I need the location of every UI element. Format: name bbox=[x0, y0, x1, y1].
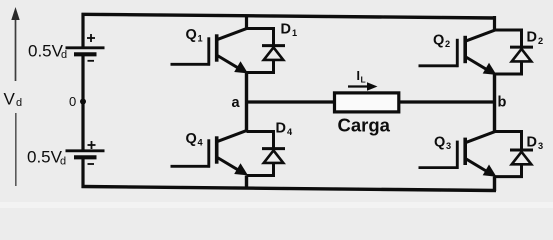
diode D1 cathode bar bbox=[262, 44, 285, 47]
diode D3 cathode bar bbox=[510, 149, 533, 152]
IGBT Q1 collector lead bbox=[217, 28, 248, 40]
svg-text:Q: Q bbox=[186, 27, 197, 43]
wire: battery column top bbox=[81, 13, 84, 48]
label Q2 bbox=[433, 33, 450, 50]
label D4 bbox=[276, 121, 294, 138]
IGBT Q1 emitter lead with arrow bbox=[217, 55, 242, 70]
svg-text:2: 2 bbox=[538, 36, 543, 46]
node 0 dot bbox=[80, 99, 86, 105]
current IL arrow bbox=[348, 85, 370, 87]
battery B2 plate + (long) bbox=[66, 149, 105, 152]
IGBT Q2 emitter lead with arrow bbox=[465, 57, 490, 72]
label Q4 bbox=[186, 131, 204, 148]
svg-text:I: I bbox=[357, 69, 360, 83]
svg-text:2: 2 bbox=[445, 39, 450, 49]
label 0.5Vd (lower source) bbox=[27, 147, 66, 167]
label Q3 bbox=[434, 135, 451, 152]
battery B2 minus sign bbox=[88, 163, 95, 165]
diode D4 branch top bbox=[247, 132, 274, 148]
svg-text:D: D bbox=[527, 135, 537, 151]
wire: leg a vertical (Q1 emitter to Q4 collector) bbox=[245, 73, 248, 132]
diode D1 branch top bbox=[247, 29, 274, 45]
battery B1 plate + (long) bbox=[66, 46, 105, 49]
diode D3 branch top bbox=[495, 132, 522, 149]
IGBT Q2 gate bar bbox=[456, 39, 459, 67]
IGBT Q3 body bar bbox=[463, 138, 467, 165]
label D2 bbox=[527, 30, 544, 47]
label IL bbox=[357, 69, 366, 84]
svg-text:b: b bbox=[498, 95, 507, 111]
diode D2 branch bottom bbox=[495, 62, 522, 75]
IGBT Q1 gate bar bbox=[207, 37, 210, 65]
svg-text:a: a bbox=[232, 95, 241, 111]
battery B1 minus sign bbox=[88, 60, 95, 62]
IGBT Q4 gate bar bbox=[207, 139, 210, 167]
svg-text:V: V bbox=[4, 90, 16, 109]
diode D4 branch bottom bbox=[247, 163, 274, 176]
Vd measurement line (lower segment) bbox=[15, 113, 17, 186]
IGBT Q4 body bar bbox=[215, 136, 219, 163]
label D3 bbox=[527, 135, 544, 152]
IGBT Q3 gate lead bbox=[419, 166, 459, 169]
svg-text:4: 4 bbox=[287, 127, 293, 137]
svg-text:D: D bbox=[281, 22, 291, 38]
battery B1 plate - (short thick) bbox=[74, 52, 97, 56]
diode D1 branch bottom bbox=[247, 60, 274, 73]
svg-text:0.5V: 0.5V bbox=[28, 41, 64, 60]
IGBT Q3 emitter lead with arrow bbox=[465, 158, 490, 173]
label 0.5Vd (upper source) bbox=[28, 41, 67, 61]
svg-text:D: D bbox=[276, 121, 286, 137]
svg-text:0: 0 bbox=[69, 94, 76, 109]
svg-text:Q: Q bbox=[434, 135, 445, 151]
IGBT Q3 gate bar bbox=[456, 141, 459, 169]
svg-text:Q: Q bbox=[186, 131, 197, 147]
svg-text:3: 3 bbox=[538, 141, 543, 151]
wire: Q4 emitter to bottom rail bbox=[245, 176, 248, 190]
top rail bbox=[82, 14, 497, 18]
IGBT Q2 collector lead bbox=[465, 30, 496, 42]
IGBT Q4 gate lead bbox=[171, 165, 211, 168]
battery B2 plus sign bbox=[88, 141, 96, 149]
wire: leg b vertical (Q2 emitter to Q3 collector) bbox=[493, 74, 496, 132]
diode D3 branch bottom bbox=[495, 164, 522, 176]
svg-text:D: D bbox=[527, 30, 537, 46]
diode D3 triangle bbox=[512, 152, 532, 165]
diode D4 triangle bbox=[264, 150, 284, 163]
wire: Q3 emitter to bottom rail bbox=[493, 177, 496, 192]
svg-text:4: 4 bbox=[198, 138, 204, 148]
battery B1 plus sign bbox=[87, 34, 95, 42]
wire: top rail right corner down to Q2 bbox=[493, 16, 496, 32]
svg-text:L: L bbox=[361, 75, 366, 85]
battery B2 plate - (short thick) bbox=[74, 155, 97, 159]
svg-text:1: 1 bbox=[292, 28, 297, 38]
wire: battery column bottom bbox=[81, 158, 84, 189]
svg-text:Carga: Carga bbox=[338, 115, 391, 136]
Vd measurement arrow (upper segment with arrowhead) bbox=[15, 18, 17, 81]
svg-text:d: d bbox=[60, 155, 66, 167]
label Q1 bbox=[186, 27, 203, 44]
IGBT Q2 body bar bbox=[463, 36, 467, 63]
wire: load to node b bbox=[399, 100, 495, 103]
diode D1 triangle bbox=[264, 47, 284, 60]
diode D2 cathode bar bbox=[510, 46, 533, 49]
label Vd bbox=[4, 90, 23, 109]
diode D4 cathode bar bbox=[262, 147, 285, 150]
IGBT Q4 collector lead bbox=[217, 130, 248, 142]
bottom light band bbox=[0, 202, 553, 208]
wire: top rail tap to Q1 bbox=[245, 15, 248, 31]
IGBT Q3 collector lead bbox=[465, 131, 496, 143]
label D1 bbox=[281, 22, 298, 39]
svg-text:Q: Q bbox=[433, 33, 444, 49]
svg-text:3: 3 bbox=[446, 141, 451, 151]
IGBT Q1 gate lead bbox=[171, 63, 211, 66]
svg-text:0.5V: 0.5V bbox=[27, 147, 63, 166]
load box Carga bbox=[335, 93, 399, 112]
svg-text:1: 1 bbox=[198, 34, 203, 44]
svg-text:d: d bbox=[16, 97, 22, 109]
IGBT Q4 emitter lead with arrow bbox=[217, 157, 242, 172]
diode D2 triangle bbox=[512, 49, 532, 62]
wire: battery column middle bbox=[81, 55, 84, 151]
wire: node a to load bbox=[247, 100, 336, 103]
diode D2 branch top bbox=[495, 30, 522, 46]
IGBT Q2 gate lead bbox=[419, 64, 459, 67]
svg-text:d: d bbox=[61, 49, 67, 61]
IGBT Q1 body bar bbox=[215, 34, 219, 61]
bottom rail bbox=[82, 187, 497, 191]
